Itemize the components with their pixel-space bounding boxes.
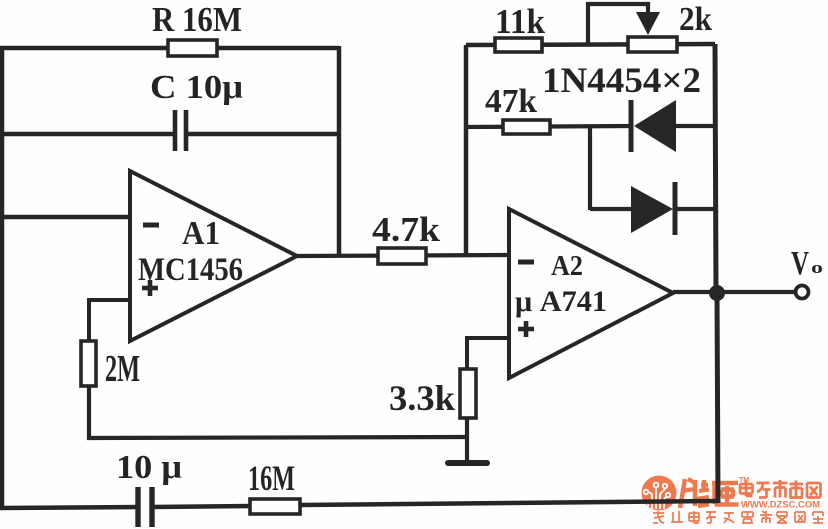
svg-text:10 μ: 10 μ — [116, 449, 182, 486]
svg-text:V: V — [791, 245, 809, 282]
label A2 minus — [518, 260, 534, 265]
svg-text:2M: 2M — [105, 348, 140, 390]
op-amp A1 — [130, 171, 297, 341]
svg-text:16M: 16M — [248, 458, 295, 498]
svg-text:C 10μ: C 10μ — [150, 69, 243, 106]
ground — [448, 460, 487, 466]
wire 47k branch — [466, 126, 631, 127]
wire A2 non-inverting input — [467, 338, 509, 369]
wire output drop to bottom rail — [717, 292, 718, 503]
logo slogan (CJK shapes) — [653, 511, 823, 523]
capacitor C 10u plates — [175, 110, 186, 151]
svg-text:1N4454×2: 1N4454×2 — [542, 60, 701, 100]
capacitor 10u plates — [138, 487, 152, 527]
potentiometer 2k body — [628, 37, 677, 52]
svg-text:4.7k: 4.7k — [372, 210, 441, 249]
svg-text:A1: A1 — [182, 215, 220, 252]
wire diode branch vertical — [588, 127, 592, 210]
resistor 16M — [250, 499, 300, 514]
label A1 plus — [142, 280, 158, 296]
resistor 3.3k — [460, 369, 476, 418]
label A2 plus — [518, 321, 534, 337]
svg-text:47k: 47k — [485, 83, 537, 120]
wire left vertical bus — [0, 46, 4, 508]
potentiometer 2k wiper arrow — [636, 12, 660, 35]
diode D2 body — [631, 186, 673, 233]
wire 2M to ground rail — [89, 386, 467, 438]
label A1 minus — [143, 223, 159, 228]
resistor 47k — [503, 120, 550, 134]
svg-text:2k: 2k — [679, 1, 712, 38]
svg-text:3.3k: 3.3k — [389, 378, 455, 418]
diode D2 cathode bar — [673, 182, 678, 235]
wire A1 inverting input — [0, 215, 130, 220]
logo icon circle — [642, 476, 677, 511]
wire riser to 11k/47k network — [464, 45, 469, 255]
wire A1 output — [295, 255, 509, 256]
wire A1 feedback riser — [337, 46, 342, 256]
wire A1 non-inverting input — [89, 300, 130, 341]
node output junction — [709, 285, 725, 301]
svg-text:A2: A2 — [551, 250, 583, 282]
wire capacitor C left segment — [0, 132, 173, 137]
terminal Vo — [796, 286, 809, 299]
svg-text:WWW.DZSC.COM: WWW.DZSC.COM — [741, 500, 820, 511]
wire 3.3k to ground — [465, 418, 469, 461]
wire bottom rail 16M to output drop — [300, 501, 718, 505]
wire capacitor C right segment — [188, 132, 339, 137]
wire bottom rail cap to 16M — [152, 506, 252, 507]
svg-text:R 16M: R 16M — [152, 0, 242, 39]
diode D1 cathode bar — [629, 100, 634, 152]
wire top right rail — [466, 44, 715, 45]
logo text dian zi shi chang wang (CJK shapes) — [740, 480, 821, 498]
logo brand name weiku (CJK shapes) — [680, 479, 739, 508]
wire top feedback (R path) — [0, 46, 339, 51]
svg-text:11k: 11k — [495, 2, 545, 41]
resistor R 16M — [168, 40, 217, 56]
wire bottom rail left of cap — [0, 507, 138, 508]
wire D1 anode to right rail — [676, 124, 715, 128]
svg-text:MC1456: MC1456 — [138, 252, 243, 288]
resistor 4.7k — [378, 248, 426, 264]
wire output to terminal — [673, 290, 795, 294]
wire D2 cathode to right rail — [675, 207, 715, 211]
svg-text:o: o — [811, 258, 823, 277]
resistor 2M — [81, 341, 96, 386]
wire D2 anode lead — [590, 207, 633, 211]
diode D1 body — [634, 100, 676, 152]
resistor 11k — [495, 38, 542, 52]
svg-text:μ A741: μ A741 — [515, 285, 607, 318]
wire right vertical rail — [715, 44, 716, 292]
op-amp A2 — [509, 209, 673, 378]
potentiometer 2k wiper loop — [588, 4, 648, 45]
